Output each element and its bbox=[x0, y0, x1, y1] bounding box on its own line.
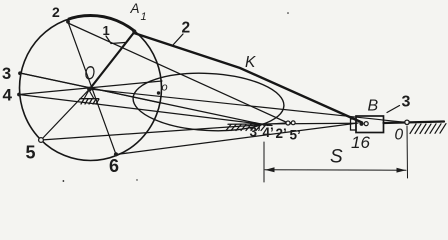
svg-text:B: B bbox=[368, 98, 379, 115]
svg-text:1: 1 bbox=[103, 23, 110, 38]
svg-text:3: 3 bbox=[402, 94, 411, 111]
svg-text:6: 6 bbox=[109, 156, 119, 176]
svg-text:2: 2 bbox=[52, 4, 60, 20]
svg-text:S: S bbox=[330, 147, 343, 168]
svg-text:4’: 4’ bbox=[263, 125, 274, 140]
svg-text:16: 16 bbox=[351, 133, 370, 152]
svg-text:5: 5 bbox=[26, 143, 36, 163]
svg-text:3’: 3’ bbox=[250, 125, 261, 140]
svg-text:0: 0 bbox=[395, 127, 404, 144]
svg-text:K: K bbox=[245, 54, 256, 71]
svg-text:O: O bbox=[85, 64, 96, 85]
svg-text:A: A bbox=[130, 1, 140, 16]
svg-text:1: 1 bbox=[141, 11, 147, 23]
svg-text:2’: 2’ bbox=[276, 126, 287, 141]
svg-text:3: 3 bbox=[2, 65, 11, 83]
svg-text:o: o bbox=[162, 82, 168, 94]
svg-text:4: 4 bbox=[3, 86, 13, 105]
svg-text:2: 2 bbox=[182, 20, 191, 37]
svg-text:5’: 5’ bbox=[290, 128, 301, 143]
